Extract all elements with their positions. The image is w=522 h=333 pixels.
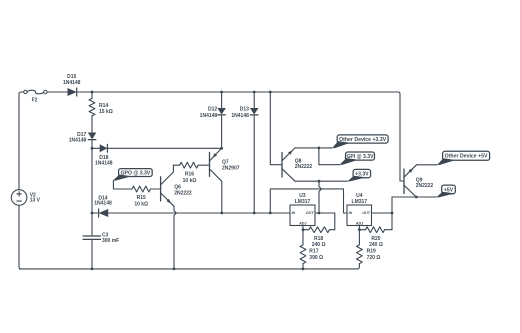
wire U3 OUT riser with hop bbox=[319, 181, 322, 213]
svg-text:ADJ: ADJ bbox=[298, 221, 307, 225]
flag +3.3V bbox=[353, 169, 371, 177]
resistor R18 240 bbox=[309, 227, 330, 233]
node bottom rail C3 bbox=[91, 268, 94, 271]
wire U3 ADJ bbox=[302, 226, 304, 245]
diode D18 1N4148 bbox=[100, 144, 108, 152]
wire C3 to bottom rail bbox=[91, 239, 93, 269]
wire D18 to Q7 emitter node bbox=[107, 147, 221, 149]
wire Q9 emitter to flag bbox=[417, 164, 438, 166]
svg-text:Other Device +5V: Other Device +5V bbox=[445, 154, 488, 160]
svg-text:R16: R16 bbox=[185, 172, 194, 178]
svg-text:13 V: 13 V bbox=[30, 198, 41, 204]
svg-text:GPI @ 3.3V: GPI @ 3.3V bbox=[346, 154, 374, 160]
svg-text:D13: D13 bbox=[240, 106, 249, 112]
svg-text:LM317: LM317 bbox=[295, 199, 311, 205]
svg-text:1N4148: 1N4148 bbox=[200, 113, 218, 119]
svg-text:R20: R20 bbox=[371, 236, 380, 242]
resistor R15 10k bbox=[132, 186, 151, 192]
svg-text:IN: IN bbox=[292, 211, 296, 215]
resistor R20 240 bbox=[366, 227, 385, 233]
wire R20 loop bbox=[385, 229, 392, 231]
svg-text:D15: D15 bbox=[67, 74, 76, 80]
node U4 feed riser junction bbox=[269, 212, 272, 215]
wire R20 to ADJ node bbox=[359, 229, 365, 231]
wire U4 IN feed bbox=[270, 189, 347, 213]
regulator U3 LM317 bbox=[290, 205, 315, 226]
wire U4 OUT bbox=[372, 212, 393, 214]
resistor R19 720 bbox=[357, 245, 363, 264]
fuse F2 bbox=[24, 90, 27, 93]
capacitor C3 300mF bbox=[83, 235, 101, 237]
wire fuse to D15 bbox=[47, 91, 67, 93]
node U4 OUT junction bbox=[391, 212, 394, 215]
node D13 junction bbox=[253, 212, 256, 215]
svg-text:1N4148: 1N4148 bbox=[63, 80, 81, 86]
voltage source V2 13V bbox=[11, 190, 27, 206]
svg-text:2N2222: 2N2222 bbox=[295, 164, 313, 170]
wire Q8 base from top rail bbox=[270, 92, 282, 165]
resistor R17 390 bbox=[300, 245, 306, 264]
transistor Q9 2N2222 bbox=[403, 169, 405, 194]
svg-text:OUT: OUT bbox=[362, 211, 371, 215]
resistor R14 15k bbox=[89, 98, 95, 115]
svg-text:1N4148: 1N4148 bbox=[231, 113, 249, 119]
svg-text:R19: R19 bbox=[367, 249, 376, 255]
node Q7 emitter / D18 / D12 bbox=[220, 147, 223, 150]
resistor R16 10k bbox=[180, 162, 199, 168]
wire V2 to bottom rail bbox=[19, 205, 21, 269]
svg-text:1N4148: 1N4148 bbox=[95, 161, 113, 167]
wire R15 to Q6 base bbox=[151, 188, 161, 190]
svg-text:D12: D12 bbox=[208, 106, 217, 112]
wire x174 to bottom rail with hop bbox=[174, 206, 176, 269]
svg-text:+3.3V: +3.3V bbox=[355, 172, 369, 178]
svg-text:10 kΩ: 10 kΩ bbox=[183, 178, 197, 184]
node U3 OUT riser bbox=[318, 180, 321, 183]
node top rail D12 bbox=[220, 91, 223, 94]
transistor Q7 2N2907 bbox=[209, 152, 211, 176]
wire U3 OUT bbox=[315, 213, 335, 230]
wire x92 rail D17 to C3 bbox=[91, 140, 93, 236]
wire D18 anode bbox=[92, 147, 100, 149]
node top rail D13 bbox=[253, 91, 256, 94]
node GPI branch bbox=[318, 147, 321, 150]
wire +5V riser bbox=[391, 197, 393, 230]
svg-text:OUT: OUT bbox=[306, 211, 315, 215]
svg-text:15 kΩ: 15 kΩ bbox=[99, 109, 113, 115]
svg-text:GPO @ 3.3V: GPO @ 3.3V bbox=[121, 170, 151, 176]
svg-text:IN: IN bbox=[349, 211, 353, 215]
flag GPO @ 3.3V bbox=[119, 169, 153, 177]
svg-text:2N2222: 2N2222 bbox=[416, 183, 434, 189]
svg-text:+5V: +5V bbox=[444, 187, 454, 193]
svg-text:240 Ω: 240 Ω bbox=[312, 242, 326, 248]
transistor Q8 2N2222 bbox=[281, 153, 283, 178]
svg-text:1N4148: 1N4148 bbox=[94, 201, 112, 207]
node U3 OUT junction bbox=[318, 212, 321, 215]
svg-text:2N2907: 2N2907 bbox=[222, 165, 240, 171]
wire Q8 collector to +3.3V flag bbox=[295, 180, 348, 182]
wire R17 to bottom rail bbox=[302, 264, 304, 269]
svg-text:Other Device +3.3V: Other Device +3.3V bbox=[339, 137, 387, 143]
transistor Q6 2N2222 bbox=[160, 177, 162, 201]
wire Q8 emitter to flag bbox=[295, 147, 332, 149]
svg-text:10 kΩ: 10 kΩ bbox=[134, 201, 148, 207]
svg-text:R17: R17 bbox=[309, 249, 318, 255]
svg-text:R18: R18 bbox=[314, 236, 323, 242]
svg-text:720 Ω: 720 Ω bbox=[367, 255, 381, 261]
pink page guide line bbox=[520, 0, 522, 333]
node U4 ADJ bbox=[358, 228, 361, 231]
wire top supply rail bbox=[77, 92, 400, 177]
svg-text:300 mF: 300 mF bbox=[102, 238, 119, 244]
svg-text:F2: F2 bbox=[32, 97, 38, 103]
diode D15 1N4148 bbox=[68, 88, 77, 96]
svg-text:390 Ω: 390 Ω bbox=[309, 255, 323, 261]
wire GPO flag to R15 bbox=[113, 180, 131, 189]
svg-text:1N4148: 1N4148 bbox=[69, 137, 87, 143]
flag +5V bbox=[442, 185, 456, 194]
flag Other Device +5V bbox=[443, 151, 490, 160]
node U3 ADJ bbox=[302, 228, 305, 231]
svg-text:LM317: LM317 bbox=[352, 199, 368, 205]
wire bottom rail bbox=[20, 264, 360, 269]
regulator U4 LM317 bbox=[347, 205, 372, 226]
diode D12 1N4148 bbox=[221, 92, 223, 108]
flag GPI @ 3.3V bbox=[346, 152, 375, 160]
node top rail / R14 bbox=[91, 91, 94, 94]
wire R18 to ADJ node bbox=[303, 229, 309, 231]
node D14 branch bbox=[91, 212, 94, 215]
node Q9 collector bbox=[415, 196, 418, 199]
diode D13 1N4148 bbox=[253, 92, 255, 108]
wire top-left corner to fuse bbox=[19, 92, 24, 190]
node bottom rail R17 bbox=[302, 268, 305, 271]
svg-text:2N2222: 2N2222 bbox=[174, 190, 192, 196]
wire GPI branch bbox=[319, 148, 340, 165]
wire D14 branch to U3 IN bbox=[92, 212, 290, 214]
wire R14 to D17 bbox=[91, 116, 93, 133]
flag Other Device +3.3V bbox=[337, 135, 388, 143]
svg-text:240 Ω: 240 Ω bbox=[369, 242, 383, 248]
diode D17 1N4148 bbox=[88, 133, 97, 140]
node D18 branch bbox=[91, 147, 94, 150]
wire top rail corner to Q9 base bbox=[399, 177, 401, 181]
diode D14 1N4148 bbox=[99, 209, 109, 217]
node top rail Q8 base drop bbox=[269, 91, 272, 94]
wire D12 to Q7 emitter node bbox=[221, 115, 223, 148]
svg-text:R15: R15 bbox=[137, 195, 146, 201]
wire R14 top stub bbox=[91, 92, 93, 98]
node Q7 collector junction bbox=[220, 212, 223, 215]
node bottom rail x174 bbox=[173, 268, 176, 271]
wire U4 ADJ bbox=[358, 226, 360, 245]
svg-text:ADJ: ADJ bbox=[355, 221, 364, 225]
wire +5V net bbox=[392, 196, 436, 198]
